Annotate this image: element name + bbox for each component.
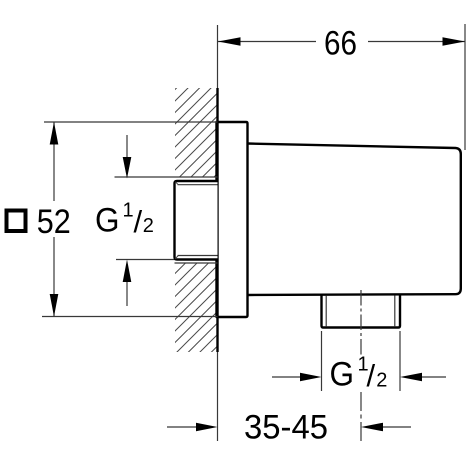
svg-text:G: G [95, 202, 120, 240]
dimension 66 left extension line (above wall) [217, 25, 219, 88]
outlet port inner thread line left [325, 296, 327, 327]
dimension 66 line right segment [368, 41, 465, 43]
G1/2 bottom right arrowhead (pointing left) [400, 373, 422, 382]
wall surface line [216, 88, 218, 352]
wall line extension below (35-45 dim) [217, 352, 219, 441]
dimension 52 line lower segment [53, 237, 55, 316]
svg-text:2: 2 [376, 370, 387, 392]
G 1/2 bottom label [330, 354, 388, 394]
dimension 35-45 left arrow line [167, 426, 196, 428]
svg-text:2: 2 [143, 215, 154, 237]
dimension 52 top extension line [44, 121, 218, 123]
G1/2 bottom right extension line [399, 331, 401, 391]
svg-text:/: / [367, 358, 376, 393]
outlet port outline [322, 295, 401, 328]
dimension 35-45 left arrowhead (pointing right) [196, 423, 218, 432]
dimension 66 line left segment [218, 41, 316, 43]
dimension 52 top arrowhead [50, 122, 59, 145]
dimension 52 bottom extension line [42, 316, 218, 318]
square symbol [7, 211, 26, 232]
dimension 66 left arrowhead [218, 37, 241, 46]
centre line of outlet port lower part [360, 392, 362, 444]
G1/2 bottom right arrow line [422, 376, 446, 378]
G1/2 bottom left extension line [321, 331, 323, 391]
G1/2 left dimension lower arrowhead (pointing up) [123, 260, 132, 283]
svg-text:/: / [134, 204, 143, 239]
thread block G1/2 inlet [175, 181, 218, 260]
thread crest bottom thin line [175, 262, 218, 264]
svg-text:G: G [330, 356, 355, 394]
svg-text:66: 66 [324, 25, 357, 63]
G1/2 left dimension upper arrowhead (pointing down) [123, 157, 132, 179]
wall surface line over flange [216, 122, 218, 318]
dimension 35-45 right arrow line [383, 426, 411, 428]
svg-text:1: 1 [123, 200, 134, 222]
dimension 66 right extension line [464, 24, 466, 150]
centre line of outlet port upper part [360, 290, 362, 356]
thread crest top thin line / G1/2 extension [115, 176, 218, 178]
outlet port inner thread line right [394, 296, 396, 327]
thread bottom extension line [116, 259, 175, 261]
G1/2 left dimension lower arrow line [126, 282, 128, 306]
dimension 52 line upper segment [53, 123, 55, 202]
wall hatching lower band [175, 263, 218, 352]
svg-text:35-45: 35-45 [244, 409, 328, 447]
G1/2 bottom left arrowhead (pointing right) [300, 373, 322, 382]
dimension 66 right arrowhead [443, 37, 466, 46]
flange plate (escutcheon) [217, 122, 248, 317]
thread root inner thin line bottom [178, 255, 218, 257]
thread chamfer bottom [175, 256, 178, 259]
G1/2 left dimension upper arrow line [126, 135, 128, 160]
G 1/2 left label [95, 200, 154, 240]
dimension 35-45 right arrowhead (pointing left) [361, 423, 383, 432]
body of wall union [248, 144, 461, 296]
wall hatching upper band [175, 88, 218, 177]
svg-text:52: 52 [37, 203, 71, 241]
G1/2 bottom left arrow line [272, 376, 300, 378]
thread chamfer top [175, 182, 178, 185]
dimension 52 bottom arrowhead [50, 294, 59, 317]
thread root inner thin line top [178, 184, 218, 186]
